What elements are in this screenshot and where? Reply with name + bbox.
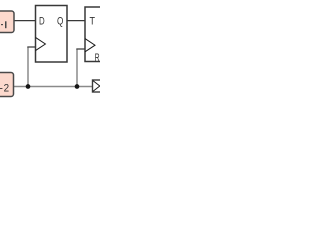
input pin box 2 (clipped at left edge) [0, 73, 14, 97]
svg-text:Q: Q [57, 16, 63, 28]
wire W4 clock stub into T [76, 48, 85, 50]
junction dot at T clock branch [75, 84, 80, 89]
wire W3 clock stub into D [27, 46, 35, 48]
clock triangle on D flip-flop [36, 37, 46, 50]
svg-text:2: 2 [4, 82, 10, 94]
wire W5 clock bus [14, 86, 93, 88]
svg-text:T: T [90, 16, 96, 28]
wire W3 clock branch to D (vertical) [27, 47, 29, 87]
svg-text:D: D [39, 16, 45, 28]
svg-text:R: R [95, 52, 100, 64]
label -1 hyphen [1, 24, 3, 25]
T flip-flop U2 box (clipped at right edge) [85, 7, 106, 62]
wire W2 Q to T [67, 20, 85, 22]
clock triangle on T flip-flop [85, 39, 95, 52]
clock source box (clipped at right edge) [93, 80, 106, 92]
wire W1 input-1 to D [14, 20, 36, 22]
D flip-flop U1 box [36, 6, 68, 63]
junction dot at D clock branch [26, 84, 31, 89]
clock source triangle [93, 81, 100, 92]
label -1 digit [5, 21, 7, 28]
input pin box 1 (clipped at left edge) [0, 11, 14, 33]
background [0, 0, 100, 100]
wire W4 clock branch to T (vertical) [76, 49, 78, 87]
